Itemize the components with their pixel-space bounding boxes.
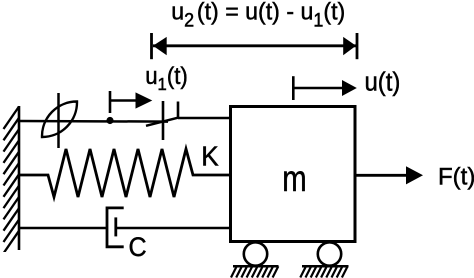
svg-text:C: C [129, 231, 147, 262]
svg-text:m: m [282, 159, 306, 200]
svg-text:K: K [201, 141, 219, 172]
svg-text:u(t): u(t) [365, 68, 401, 97]
svg-text:F(t): F(t) [438, 164, 474, 191]
